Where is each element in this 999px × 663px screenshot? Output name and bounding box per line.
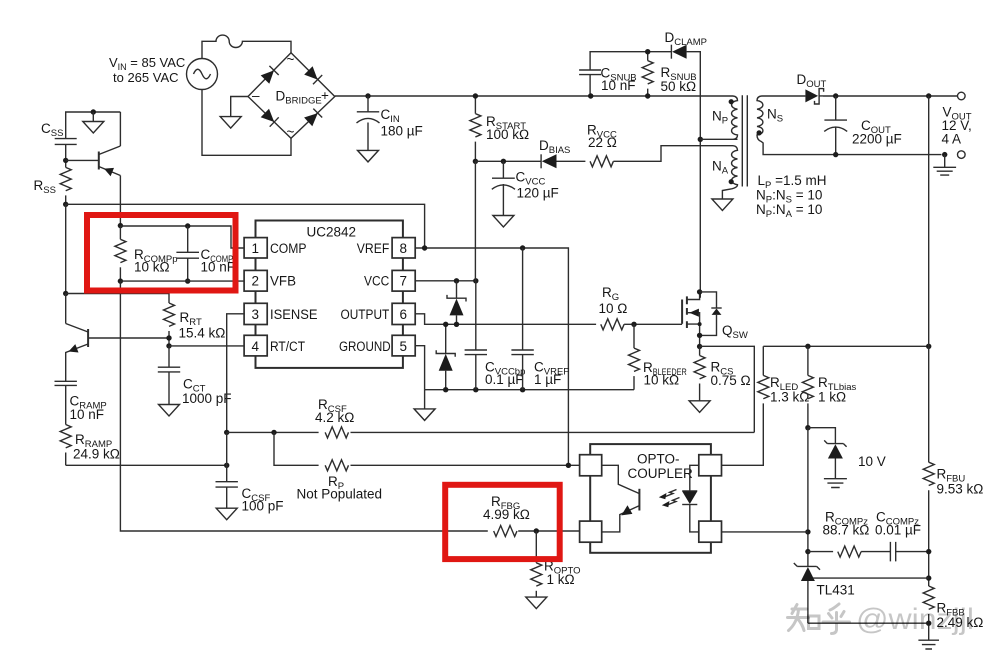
svg-text:0.1 µF: 0.1 µF	[485, 372, 524, 387]
svg-text:OUTPUT: OUTPUT	[341, 307, 390, 322]
bridge labels	[252, 52, 329, 140]
resistor RFBB	[923, 586, 983, 630]
resistor RLED	[722, 346, 809, 465]
svg-text:10 Ω: 10 Ω	[599, 301, 628, 316]
svg-text:QSW: QSW	[722, 323, 748, 341]
opto pin box top-right	[699, 455, 722, 476]
bridge diode top-right	[304, 66, 322, 84]
wire pin8 VREF to right	[415, 248, 568, 465]
watermark zhihu logo	[788, 604, 850, 634]
resistor RSNUB	[642, 52, 696, 96]
svg-text:COUPLER: COUPLER	[628, 466, 694, 481]
node CSNUB bottom	[588, 93, 593, 98]
svg-text:4 A: 4 A	[942, 132, 962, 147]
opto-coupler U3 box	[590, 444, 711, 553]
zener D1 (VCC clamp)	[447, 281, 466, 325]
wire RRAMP bottom to ISENSE node	[66, 464, 227, 466]
wire VREF to RRT top	[66, 294, 169, 304]
chassis ground (output)	[933, 155, 956, 176]
svg-text:2: 2	[252, 274, 260, 289]
node RFBG/ROPTO junction	[534, 528, 539, 533]
capacitor CRAMP	[55, 381, 107, 424]
node VCC/RSTART vertical	[473, 278, 478, 283]
svg-text:22 Ω: 22 Ω	[588, 135, 617, 150]
node zener top on VCC	[454, 278, 459, 283]
wire top rail (+) to transformer primary	[335, 95, 733, 97]
node feedback rail top	[926, 93, 931, 98]
svg-text:4.2 kΩ: 4.2 kΩ	[315, 410, 354, 425]
wire VFB line to pin2	[120, 280, 244, 282]
svg-text:DBRIDGE: DBRIDGE	[276, 89, 322, 107]
svg-text:180 µF: 180 µF	[381, 124, 423, 139]
svg-text:RT/CT: RT/CT	[270, 339, 305, 354]
svg-text:1 kΩ: 1 kΩ	[547, 572, 575, 587]
svg-text:DBIAS: DBIAS	[539, 138, 570, 156]
resistor RVCC	[557, 123, 734, 167]
capacitor CSNUB	[579, 66, 637, 97]
capacitor CSS	[41, 121, 77, 167]
svg-text:NP: NP	[712, 109, 728, 127]
wire VCC junction to DBIAS	[475, 160, 541, 162]
svg-text:4: 4	[252, 339, 260, 354]
capacitor CVREF	[511, 248, 569, 390]
svg-text:+: +	[321, 88, 329, 103]
diode DOUT (schottky)	[797, 72, 827, 104]
node output ground junction	[942, 152, 947, 157]
svg-text:TL431: TL431	[817, 583, 855, 598]
resistor RRT	[164, 303, 226, 346]
node VREF/opto collector junction	[566, 463, 571, 468]
red annotation box 2 (RFBG)	[445, 485, 560, 559]
node COMP top	[118, 223, 123, 228]
svg-text:NS: NS	[767, 107, 783, 125]
capacitor CIN (polarized)	[357, 96, 423, 150]
node RT/CT junction	[166, 343, 171, 348]
node RRT bottom / base	[166, 335, 171, 340]
transformer labels	[712, 107, 827, 221]
svg-text:100 pF: 100 pF	[242, 499, 284, 514]
svg-text:6: 6	[400, 307, 408, 322]
node VREF-RRT junction	[63, 291, 68, 296]
svg-text:2200 µF: 2200 µF	[852, 132, 902, 147]
transformer core	[742, 95, 747, 186]
node RSS bottom / VREF rail junction	[63, 202, 68, 207]
node RCOMPz line	[805, 549, 810, 554]
node QSW drain	[697, 289, 702, 294]
resistor RSS	[34, 167, 72, 204]
pin 1 COMP	[244, 238, 306, 258]
svg-text:Not Populated: Not Populated	[297, 487, 383, 502]
resistor RG	[599, 285, 628, 330]
wire RSTART vertical down to CVCCbp	[474, 161, 476, 350]
opto pin box top-left	[580, 455, 602, 476]
node NS polarity dot	[757, 130, 762, 135]
zener D3 10V	[808, 428, 886, 479]
svg-text:UC2842: UC2842	[307, 225, 357, 240]
diode DBIAS	[539, 138, 570, 168]
svg-text:VREF: VREF	[357, 241, 390, 256]
node CCOMP top	[185, 223, 190, 228]
pin 2 VFB	[244, 270, 296, 291]
svg-text:COMP: COMP	[270, 241, 307, 256]
node RP branch junction	[271, 430, 276, 435]
resistor RFBG	[483, 494, 580, 537]
ground (CCT)	[159, 405, 180, 417]
node primary bottom junction	[698, 137, 703, 142]
ground (soft-start top)	[92, 112, 94, 122]
svg-text:8: 8	[400, 241, 408, 256]
node opto cathode line	[805, 529, 810, 534]
transistor Q1 (PNP soft-start)	[66, 112, 121, 226]
transformer auxiliary NA	[722, 146, 737, 199]
wire opto to TL431	[722, 531, 808, 533]
wire pin3 ISENSE drop	[227, 314, 244, 433]
svg-text:GROUND: GROUND	[339, 339, 391, 354]
node rail/RCOMPz	[926, 549, 931, 554]
op-amp U1 UC2842 IC box	[256, 221, 403, 368]
node rail/REF line	[926, 575, 931, 580]
wire sense line with RCSF	[227, 431, 755, 433]
node RG/RBLEEDER junction	[631, 322, 636, 327]
capacitor CVCCbp	[465, 350, 526, 390]
ground (ROPTO)	[526, 597, 547, 609]
svg-text:10 kΩ: 10 kΩ	[644, 373, 680, 388]
svg-text:0.01 µF: 0.01 µF	[875, 523, 921, 538]
node RSTART top	[473, 93, 478, 98]
svg-text:7: 7	[400, 274, 408, 289]
capacitor CCSF	[216, 482, 284, 514]
feedback rail down right side	[928, 96, 930, 640]
pin 5 GROUND	[339, 335, 415, 356]
pin 6 OUTPUT	[341, 303, 416, 324]
wire CSS top node	[66, 112, 121, 139]
resistor RCOMPp	[115, 226, 178, 281]
svg-text:10 V: 10 V	[858, 454, 886, 469]
node feedback rail / RLED line	[926, 344, 931, 349]
wire clamp rail	[590, 52, 700, 298]
bridge diode bottom-right	[304, 109, 322, 127]
node gnd-CVREF	[520, 387, 525, 392]
opto pin box bottom-left	[580, 521, 602, 542]
svg-text:4.99 kΩ: 4.99 kΩ	[483, 507, 530, 522]
node RSNUB bottom	[645, 93, 650, 98]
svg-text:ISENSE: ISENSE	[270, 307, 318, 322]
pin 3 ISENSE	[244, 303, 317, 324]
node NA polarity dot	[729, 179, 734, 184]
svg-text:OPTO-: OPTO-	[637, 452, 680, 467]
resistor RP (not populated)	[297, 460, 383, 502]
bridge rectifier DBRIDGE diamond	[248, 53, 335, 139]
node NP polarity dot	[729, 99, 734, 104]
resistor RSTART	[470, 96, 529, 161]
svg-text:24.9 kΩ: 24.9 kΩ	[73, 447, 120, 462]
wire ISENSE down to CCSF	[226, 432, 228, 481]
TL431 U2	[794, 563, 929, 623]
wire RP branch	[274, 432, 580, 465]
node zener2 top	[443, 322, 448, 327]
svg-text:1000 pF: 1000 pF	[182, 391, 232, 406]
node CVCC top	[501, 159, 506, 164]
svg-text:3: 3	[252, 307, 260, 322]
wire VREF long rail to pin8 riser	[66, 204, 425, 248]
svg-text:CIN: CIN	[381, 107, 400, 125]
node gnd-CVCCbp	[473, 387, 478, 392]
ground (bridge)	[220, 117, 241, 129]
svg-text:1 µF: 1 µF	[534, 372, 561, 387]
wire primary bottom	[700, 138, 737, 140]
svg-text:5: 5	[400, 339, 408, 354]
svg-text:10 nF: 10 nF	[70, 407, 105, 422]
resistor RCS	[694, 347, 751, 401]
node ISENSE/ramp junction	[224, 463, 229, 468]
bridge diode top-left	[261, 66, 279, 84]
node 10V zener branch	[805, 425, 810, 430]
svg-text:VFB: VFB	[270, 274, 296, 289]
node VREF pin8 junction	[422, 245, 427, 250]
svg-text:50 kΩ: 50 kΩ	[661, 79, 697, 94]
svg-text:10 nF: 10 nF	[201, 260, 236, 275]
capacitor CCT	[158, 346, 232, 406]
svg-text:15.4 kΩ: 15.4 kΩ	[179, 326, 226, 341]
node current sense junction	[697, 344, 702, 349]
ground (IC analog)	[424, 390, 426, 409]
wire secondary top to DOUT	[762, 95, 806, 97]
wire sense to right drop	[700, 346, 755, 432]
bridge diode bottom-left	[261, 109, 279, 127]
wire bridge minus to ground	[231, 97, 248, 117]
node gnd-zener2	[443, 387, 448, 392]
AC source VIN	[109, 55, 218, 90]
resistor RFBU	[923, 462, 983, 496]
chassis ground (bottom right)	[918, 640, 939, 649]
node RCOMPp bottom	[118, 278, 123, 283]
resistor RTLbias	[802, 346, 856, 427]
node COUT bottom	[833, 152, 838, 157]
wire COMP drop to RFBG line	[120, 281, 487, 531]
svg-text:1: 1	[252, 241, 260, 256]
svg-text:100 kΩ: 100 kΩ	[486, 127, 529, 142]
svg-text:–: –	[252, 88, 260, 103]
ground (RCS)	[689, 401, 710, 413]
node CVREF top junction	[520, 245, 525, 250]
opto light arrows	[659, 490, 680, 508]
red annotation box 1 (RCOMPp/CCOMP)	[87, 215, 236, 291]
wire VREF rail down left side	[65, 204, 67, 293]
capacitor COUT (polarized)	[824, 96, 902, 155]
wire pin5 GROUND line	[415, 346, 634, 390]
output terminal circles VOUT	[942, 92, 972, 158]
transformer primary NP	[732, 96, 738, 139]
svg-text:0.75 Ω: 0.75 Ω	[711, 373, 751, 388]
svg-text:RSS: RSS	[34, 178, 56, 196]
resistor RCSF	[315, 397, 354, 438]
svg-text:1 kΩ: 1 kΩ	[818, 390, 846, 405]
node COUT top	[833, 93, 838, 98]
node CSS/RSS base junction	[63, 158, 68, 163]
body diode of QSW	[700, 292, 722, 336]
zener D2 (gate clamp)	[436, 324, 455, 389]
svg-text:DOUT: DOUT	[797, 72, 827, 90]
node CIN junction	[365, 93, 370, 98]
transistor Q2 (NPN ramp buffer)	[66, 294, 169, 382]
svg-text:~: ~	[287, 125, 295, 140]
svg-text:~: ~	[287, 52, 295, 67]
chassis ground (10V zener)	[824, 479, 847, 488]
ground (CVCC)	[493, 216, 514, 228]
svg-text:VCC: VCC	[364, 274, 390, 289]
pin 7 VCC	[364, 270, 415, 291]
opto phototransistor	[602, 465, 640, 532]
wire RT/CT to pin4	[169, 345, 244, 347]
node VCC/DBIAS junction	[473, 159, 478, 164]
svg-text:to 265 VAC: to 265 VAC	[113, 70, 179, 85]
transistor QSW MOSFET	[682, 292, 748, 347]
wire pin6 OUTPUT to gate	[415, 314, 682, 325]
wire AC loop left/top with fuse hump	[202, 35, 291, 58]
svg-text:CSS: CSS	[41, 121, 63, 139]
node zener1 bottom	[454, 322, 459, 327]
node bottom rail / ground	[926, 621, 931, 626]
resistor ROPTO	[531, 531, 581, 597]
wire pin7 VCC line	[415, 280, 476, 282]
node CSS top ground junction	[91, 109, 96, 114]
ground (CIN)	[358, 150, 379, 162]
pin 4 RT/CT	[244, 335, 305, 356]
svg-text:9.53 kΩ: 9.53 kΩ	[937, 482, 984, 497]
svg-text:@winzjjl: @winzjjl	[856, 603, 974, 636]
node RSNUB top	[645, 49, 650, 54]
diode DCLAMP	[665, 30, 707, 59]
opto LED	[682, 465, 699, 532]
node CCOMP bottom	[185, 278, 190, 283]
wire TL431 anode rail to ground	[808, 622, 929, 624]
transformer secondary NS	[757, 96, 942, 155]
resistor RRAMP	[60, 425, 120, 466]
svg-text:10 kΩ: 10 kΩ	[134, 260, 170, 275]
wire RLED top line	[763, 345, 928, 347]
wire COMP node to pin1	[120, 226, 244, 248]
svg-text:NA: NA	[712, 159, 729, 177]
wire AC loop bottom	[202, 90, 291, 156]
node RTLbias top	[805, 344, 810, 349]
capacitor CVCC (polarized)	[492, 161, 559, 215]
resistor RBLEEDER	[629, 324, 687, 389]
ground (CCSF)	[216, 508, 237, 520]
ground (NA)	[712, 199, 733, 211]
opto pin box bottom-right	[699, 521, 722, 542]
node QSW source	[697, 333, 702, 338]
pin 8 VREF	[357, 238, 415, 258]
resistor RCOMPz + capacitor CCOMPz branch	[808, 510, 929, 562]
wire DOUT to output terminal	[819, 95, 958, 97]
node ISENSE/sense-line junction	[224, 430, 229, 435]
TL431 rail down	[807, 428, 809, 567]
svg-text:88.7 kΩ: 88.7 kΩ	[823, 523, 870, 538]
svg-text:10 nF: 10 nF	[601, 78, 636, 93]
capacitor CCOMP	[176, 226, 235, 281]
svg-text:120 µF: 120 µF	[517, 186, 559, 201]
